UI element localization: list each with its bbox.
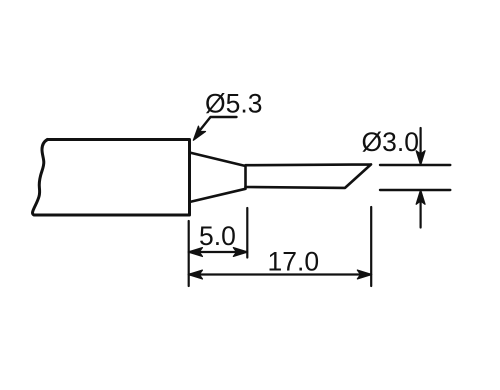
- diameter 3.0 extension line bottom: [380, 189, 450, 191]
- narrow rod with beveled chisel tip: [246, 164, 372, 188]
- leader line for diameter 5.3 callout: [197, 117, 237, 135]
- tapered cone section: [190, 153, 246, 203]
- arrowhead 17.0 right: [357, 270, 371, 279]
- dimension line 5.0: [190, 251, 248, 253]
- dimension extension line right (at tip end): [370, 207, 372, 286]
- soldering tip body (barrel with break line): [35, 140, 190, 216]
- break (wavy) left edge of barrel: [33, 140, 48, 215]
- arrowhead 5.0 left: [188, 248, 202, 257]
- svg-text:Ø3.0: Ø3.0: [362, 127, 419, 157]
- arrowhead 5.0 right: [233, 248, 247, 257]
- arrowhead diameter 3.0 up: [416, 190, 425, 204]
- svg-text:Ø5.3: Ø5.3: [205, 89, 262, 119]
- dimension extension line middle (at taper end): [246, 208, 248, 258]
- diameter 3.0 lower arrow shaft: [420, 193, 422, 228]
- arrowhead of leader (points to taper corner): [190, 126, 206, 143]
- dimension line 17.0: [190, 273, 372, 275]
- svg-text:17.0: 17.0: [268, 246, 320, 276]
- svg-text:5.0: 5.0: [199, 221, 236, 251]
- dimension extension line left (at taper start): [188, 221, 190, 286]
- diameter 3.0 upper arrow shaft: [420, 128, 422, 162]
- diameter 3.0 extension line top: [380, 164, 450, 166]
- arrowhead 17.0 left: [188, 270, 202, 279]
- arrowhead diameter 3.0 down: [416, 151, 425, 165]
